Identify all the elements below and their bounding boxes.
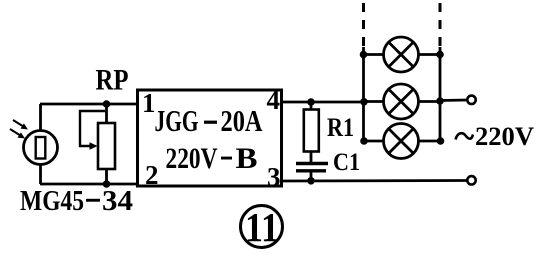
svg-text:C1: C1 [333, 149, 360, 176]
rail right solid [439, 47, 442, 141]
terminal bottom [467, 176, 475, 184]
svg-text:2: 2 [145, 160, 159, 190]
capacitor C1 [296, 164, 328, 182]
svg-text:220V: 220V [475, 122, 534, 151]
lamp EL1 [364, 37, 441, 72]
node C1 bottom [307, 177, 315, 185]
label ~220V tilde [456, 133, 474, 139]
node row2 right [436, 97, 444, 105]
node R1 top [307, 98, 315, 106]
figure number circle [241, 206, 283, 248]
resistor R1 [304, 102, 319, 162]
dashed rail left [362, 3, 365, 48]
potentiometer RP [80, 104, 115, 184]
svg-text:R1: R1 [327, 113, 354, 142]
node row2 left [360, 98, 368, 106]
svg-text:MG45: MG45 [20, 185, 84, 217]
node pot top [103, 100, 111, 108]
svg-text:220V: 220V [166, 143, 218, 175]
label MG45-34 dash [86, 199, 100, 202]
label JGG-20A dash [204, 121, 217, 124]
wire top rail left loop [40, 103, 137, 106]
wire to top terminal [440, 99, 467, 102]
lamp EL2 [364, 84, 441, 119]
photoresistor MG45-34 [10, 104, 58, 184]
wire pin4 to lamp rail [282, 101, 365, 104]
rail left solid [362, 47, 365, 141]
svg-text:RP: RP [96, 65, 129, 97]
svg-text:11: 11 [245, 204, 279, 250]
node row1 right [436, 51, 444, 59]
svg-text:JGG: JGG [155, 103, 199, 138]
terminal top [467, 96, 475, 104]
svg-text:B: B [236, 143, 258, 175]
svg-text:4: 4 [267, 85, 281, 115]
svg-text:34: 34 [102, 185, 133, 217]
svg-text:20A: 20A [221, 103, 263, 138]
wire bottom rail left loop [40, 183, 137, 186]
node row3 left [360, 137, 368, 145]
svg-text:3: 3 [267, 162, 281, 192]
svg-text:1: 1 [142, 88, 156, 118]
node row1 left [360, 51, 368, 59]
node row3 right [437, 137, 445, 145]
node pot bottom [103, 180, 111, 188]
box U1 JGG-20A [138, 90, 282, 186]
label 220V-B dash [221, 157, 232, 160]
lamp EL3 [364, 124, 441, 159]
wire pin3 bottom to terminal [282, 179, 468, 182]
dashed rail right [439, 3, 442, 48]
